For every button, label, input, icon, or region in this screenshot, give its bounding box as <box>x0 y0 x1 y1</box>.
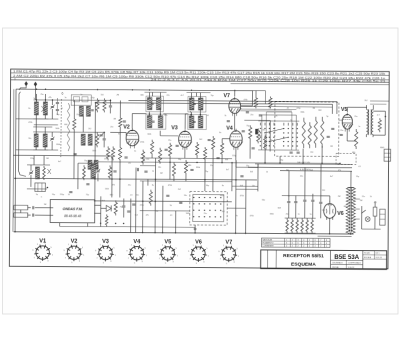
wire V2 grid <box>110 131 126 133</box>
svg-text:V6: V6 <box>195 239 202 245</box>
mains wire 2 <box>248 166 352 169</box>
bus riser 11 <box>257 164 259 191</box>
svg-text:6k8: 6k8 <box>225 159 228 161</box>
svg-text:4: 4 <box>303 240 304 242</box>
svg-text:25n: 25n <box>340 130 343 132</box>
svg-text:100k: 100k <box>147 134 151 136</box>
svg-text:5-10-53: 5-10-53 <box>348 267 354 269</box>
capacitor C18b <box>331 127 334 129</box>
svg-text:150: 150 <box>100 94 103 96</box>
wire stub g <box>236 188 258 190</box>
svg-text:FECHA: FECHA <box>332 266 339 269</box>
svg-text:5p: 5p <box>74 154 76 156</box>
svg-text:2: 2 <box>292 240 293 242</box>
bus riser 8 <box>175 211 177 233</box>
svg-text:680: 680 <box>344 206 347 208</box>
svg-text:150: 150 <box>322 190 325 192</box>
svg-text:6: 6 <box>309 243 310 245</box>
svg-text:330k: 330k <box>56 144 60 146</box>
node dots mid <box>155 179 157 181</box>
power transformer T4 <box>346 187 350 234</box>
svg-text:V4: V4 <box>226 126 233 132</box>
resistor R36b <box>105 214 108 226</box>
wire mid drop2 <box>212 158 214 191</box>
svg-text:2: 2 <box>315 246 316 248</box>
svg-text:1n: 1n <box>64 97 66 99</box>
svg-text:8: 8 <box>326 240 327 242</box>
svg-text:150: 150 <box>146 159 149 161</box>
drawing border frame <box>9 69 389 269</box>
svg-text:22n: 22n <box>300 176 303 178</box>
wire T3 secondary <box>373 110 385 112</box>
terminal strip <box>380 209 386 225</box>
small IF block <box>35 183 46 192</box>
wire ps top <box>282 195 321 197</box>
svg-text:25u: 25u <box>128 185 131 187</box>
svg-text:470k: 470k <box>243 99 247 101</box>
svg-text:2M: 2M <box>160 173 163 175</box>
svg-text:5n: 5n <box>80 94 82 96</box>
electrolytic C21 <box>287 201 290 203</box>
wire fm verticals <box>59 223 61 226</box>
resistor R13 <box>158 148 161 164</box>
resistor R16 <box>203 147 206 161</box>
wire sw2 link <box>227 207 245 209</box>
svg-text:25n: 25n <box>40 94 43 96</box>
wire V2 plate <box>131 114 133 129</box>
resistor R26 <box>308 122 311 148</box>
svg-text:7: 7 <box>320 240 321 242</box>
FM block box <box>50 200 95 223</box>
svg-text:2k2: 2k2 <box>88 128 91 130</box>
capacitor C7 <box>103 138 106 140</box>
svg-text:75p: 75p <box>120 206 123 208</box>
svg-text:1: 1 <box>286 240 287 242</box>
wire T2 drop <box>190 112 192 116</box>
mains wire 1 <box>255 163 352 166</box>
wire heater <box>232 185 258 187</box>
svg-text:VALVULAS: VALVULAS <box>263 239 273 242</box>
svg-text:.01: .01 <box>286 108 289 110</box>
capacitor C19c <box>290 151 293 153</box>
svg-text:3k3: 3k3 <box>310 170 313 172</box>
AM aerial coil L2 <box>34 134 38 147</box>
capacitor C32 <box>179 201 182 203</box>
bank bus bottom <box>285 232 316 234</box>
svg-text:2: 2 <box>297 246 298 248</box>
wire sw2 drop <box>194 225 196 233</box>
svg-text:15p: 15p <box>246 165 249 167</box>
grid loop wire 1 <box>128 100 336 101</box>
svg-text:47k: 47k <box>112 184 115 186</box>
capacitor C10 <box>123 120 126 122</box>
svg-text:5n: 5n <box>290 120 292 122</box>
resistor R11 <box>141 150 144 165</box>
valve socket V4 <box>130 246 143 259</box>
wire if stubs <box>151 156 153 158</box>
svg-text:V2: V2 <box>71 238 78 244</box>
svg-text:5p: 5p <box>170 205 172 207</box>
svg-text:4u7: 4u7 <box>226 169 229 171</box>
valve socket V1 <box>36 246 49 259</box>
valve socket V2 <box>67 246 80 259</box>
antenna terminal A2 <box>34 82 37 87</box>
svg-text:5p: 5p <box>33 98 35 100</box>
capacitor C12b <box>113 170 116 172</box>
svg-text:50p: 50p <box>206 185 209 187</box>
resistor R23 <box>314 117 317 148</box>
svg-text:8u: 8u <box>219 132 221 134</box>
svg-text:8u: 8u <box>222 185 224 187</box>
avc bus wire <box>13 154 112 157</box>
svg-text:22n: 22n <box>362 196 365 198</box>
wire stub a <box>82 116 84 132</box>
svg-text:V5: V5 <box>164 239 171 245</box>
capacitor C20v <box>340 133 343 135</box>
svg-text:DELINEADO: DELINEADO <box>332 261 343 264</box>
svg-text:1n: 1n <box>358 126 360 128</box>
wire ps risers <box>288 171 290 196</box>
bus riser 7 <box>162 186 164 233</box>
heater pair wire <box>318 235 352 237</box>
capacitor C29b <box>132 203 135 205</box>
FM aerial coil L1 <box>34 102 38 115</box>
capacitor C27 <box>32 213 34 216</box>
wire v x136 <box>135 168 137 233</box>
svg-text:330k: 330k <box>270 213 274 215</box>
svg-text:8u: 8u <box>236 215 238 217</box>
resistor R20 <box>249 125 252 140</box>
svg-text:COMPROBADO: COMPROBADO <box>348 262 362 265</box>
tube V5 <box>342 114 352 129</box>
switch loop inner 2 <box>266 112 292 150</box>
svg-text:47k: 47k <box>48 97 51 99</box>
resistor R28 <box>378 118 381 132</box>
svg-text:50p: 50p <box>280 160 283 162</box>
svg-text:CORRIENTE: CORRIENTE <box>262 246 274 248</box>
svg-text:220p: 220p <box>30 158 34 160</box>
resistor R21 <box>257 128 260 143</box>
svg-text:88.48-98.48: 88.48-98.48 <box>64 214 81 218</box>
bus riser 1 <box>94 103 97 201</box>
svg-text:V5: V5 <box>341 107 348 113</box>
node dot a <box>36 88 38 90</box>
svg-text:V2: V2 <box>123 124 130 130</box>
wire V5 cath <box>346 129 348 141</box>
electrolytic C28 <box>122 205 125 207</box>
valve socket V3 <box>99 246 112 259</box>
svg-text:1k: 1k <box>266 171 268 173</box>
wire T3 loop <box>370 100 389 102</box>
svg-text:2M: 2M <box>338 196 341 198</box>
title block frame <box>261 250 387 270</box>
capacitor C16b <box>259 114 262 116</box>
IF transformer T1 <box>147 98 152 110</box>
resistor R25 <box>302 118 305 149</box>
svg-text:.01: .01 <box>358 166 361 168</box>
title sub rules <box>331 259 363 261</box>
svg-text:330k: 330k <box>196 167 200 169</box>
bus wire mid <box>95 200 232 203</box>
switch wiper lines <box>265 128 284 132</box>
pilot lamp <box>365 217 370 222</box>
cap column <box>56 101 59 103</box>
svg-text:10n: 10n <box>252 185 255 187</box>
parts list rule 3 <box>11 80 390 83</box>
resistor R36 <box>114 200 117 215</box>
mains switch S1 <box>362 206 366 213</box>
resistor R9b <box>106 146 109 160</box>
svg-text:220p: 220p <box>90 97 94 99</box>
capacitor C31 <box>166 194 169 196</box>
svg-text:8u: 8u <box>152 185 154 187</box>
gang dashed link 2 <box>189 99 191 128</box>
wire v4 to af <box>236 160 258 167</box>
gang wavy link <box>67 103 70 151</box>
svg-text:V7: V7 <box>223 93 230 99</box>
svg-text:2M: 2M <box>360 200 363 202</box>
resistor R40 <box>269 96 272 108</box>
wire V6 top <box>329 196 331 202</box>
wire sw right <box>331 104 333 114</box>
tube V3 <box>179 131 192 147</box>
resistor R14 <box>168 143 171 158</box>
bus riser 6 <box>142 181 144 233</box>
black cap blob <box>255 129 258 135</box>
wire front-end gnd <box>35 119 37 127</box>
wire V7 leads <box>234 91 236 97</box>
wire mid drop1 <box>204 161 206 191</box>
svg-text:.01: .01 <box>60 108 63 110</box>
svg-text:5n: 5n <box>310 214 312 216</box>
capacitor C14h <box>208 138 211 140</box>
svg-text:5p: 5p <box>36 194 38 196</box>
svg-text:V7: V7 <box>225 239 232 245</box>
wire v x131 <box>130 199 132 233</box>
wire trafo bottom <box>350 233 352 234</box>
svg-text:2: 2 <box>309 246 310 248</box>
svg-text:6: 6 <box>303 243 304 245</box>
svg-text:1M: 1M <box>312 108 315 110</box>
wire det <box>244 119 270 121</box>
svg-text:1n: 1n <box>270 139 272 141</box>
svg-text:1M: 1M <box>113 118 116 120</box>
resistor R11b <box>108 165 111 179</box>
wire FM out 2 <box>94 212 100 214</box>
svg-text:2k2: 2k2 <box>178 189 181 191</box>
resistor R4 <box>103 98 106 112</box>
wire V6 bottom <box>329 218 331 234</box>
svg-text:B5E 53A: B5E 53A <box>334 254 359 261</box>
wire link fe <box>34 124 58 126</box>
RF coil L3b <box>88 160 92 169</box>
svg-text:220p: 220p <box>140 205 144 207</box>
svg-text:2: 2 <box>286 246 287 248</box>
wire V5 plate <box>346 107 348 112</box>
capacitor C18v <box>327 135 330 137</box>
svg-text:1M: 1M <box>46 158 49 160</box>
avc bus wire 2 <box>95 162 340 164</box>
RF coil L3 <box>79 106 83 116</box>
electrolytic C22 <box>294 201 297 203</box>
svg-text:25u: 25u <box>76 114 79 116</box>
capacitor C11v <box>124 156 127 158</box>
svg-text:75p: 75p <box>286 170 289 172</box>
capacitor C23 <box>303 199 306 201</box>
valve voltage table <box>261 238 330 247</box>
front-end shield box <box>71 95 91 106</box>
bus riser 3 <box>111 156 113 197</box>
svg-text:.01: .01 <box>206 115 209 117</box>
svg-text:220p: 220p <box>60 194 64 196</box>
wire V3 plate <box>184 114 186 129</box>
svg-text:47k: 47k <box>146 215 149 217</box>
resistor R15 <box>195 142 198 157</box>
capacitor C12 <box>136 168 138 171</box>
svg-text:50p: 50p <box>56 114 59 116</box>
capacitor C16v <box>246 111 249 113</box>
FM dipole antenna <box>14 205 28 210</box>
svg-text:100k: 100k <box>338 120 342 122</box>
wire trafo taps <box>354 198 359 200</box>
svg-text:680: 680 <box>110 194 113 196</box>
svg-text:V3: V3 <box>171 125 178 131</box>
resistor bank R30-R35 <box>286 218 289 233</box>
svg-text:6k8: 6k8 <box>64 124 67 126</box>
svg-text:25n: 25n <box>110 126 113 128</box>
switch loop top <box>240 110 291 112</box>
bottom bus wire <box>14 232 354 234</box>
mains wire 3 <box>280 170 352 172</box>
trimmer C1 <box>51 105 54 107</box>
svg-text:RECEPTOR 58/51: RECEPTOR 58/51 <box>283 253 324 259</box>
svg-text:680: 680 <box>140 95 143 97</box>
svg-text:100k: 100k <box>105 188 109 190</box>
left margin bus wire <box>14 89 17 232</box>
trimmer cluster <box>35 167 39 179</box>
svg-text:V1: V1 <box>39 238 46 244</box>
svg-text:3k3: 3k3 <box>258 135 261 137</box>
ground bus wire 2 <box>140 180 232 183</box>
output transformer T3 <box>367 110 369 113</box>
resistor R38 <box>184 160 187 175</box>
resistor R37 <box>149 190 152 206</box>
svg-text:10n: 10n <box>184 195 187 197</box>
band switch box III <box>336 153 356 164</box>
wire stub j <box>264 91 266 104</box>
avc bus wire b <box>140 157 232 160</box>
svg-text:220p: 220p <box>296 108 300 110</box>
wire stub i <box>173 178 175 181</box>
tube V2 <box>126 130 139 146</box>
wire stub f <box>48 118 58 120</box>
resistor R19 <box>254 96 257 108</box>
wire trafo top <box>347 186 354 188</box>
svg-text:3k3: 3k3 <box>250 171 253 173</box>
capacitor C29 <box>127 210 130 212</box>
svg-text:1M: 1M <box>44 204 47 206</box>
svg-text:5n: 5n <box>134 151 136 153</box>
parts list rule 2 <box>11 77 390 80</box>
wire front-end mid <box>33 131 104 133</box>
top bus wire <box>16 89 252 91</box>
svg-text:470k: 470k <box>168 185 172 187</box>
svg-text:22n: 22n <box>166 95 169 97</box>
resistor R22 <box>264 134 267 150</box>
svg-text:.01: .01 <box>130 195 133 197</box>
capacitor C5 <box>109 105 112 107</box>
ground bus wire <box>14 178 257 180</box>
wire stub e <box>16 118 33 120</box>
svg-text:15p: 15p <box>210 95 213 97</box>
svg-text:5n: 5n <box>288 196 290 198</box>
svg-text:150: 150 <box>322 210 325 212</box>
svg-text:25u: 25u <box>168 140 171 142</box>
switch wafer lines <box>258 120 299 122</box>
svg-text:2k2: 2k2 <box>364 100 367 102</box>
svg-text:4u7: 4u7 <box>330 176 333 178</box>
svg-text:6: 6 <box>298 243 299 245</box>
svg-text:25u: 25u <box>104 158 107 160</box>
svg-text:1k: 1k <box>224 115 226 117</box>
grid loop wire 3 <box>240 105 332 108</box>
svg-text:V6: V6 <box>337 211 344 217</box>
capacitor C26 <box>32 206 34 209</box>
svg-text:47k: 47k <box>274 115 277 117</box>
capacitor C33 <box>240 175 243 177</box>
svg-text:2k2: 2k2 <box>222 211 225 213</box>
svg-text:470k: 470k <box>28 122 32 124</box>
resistor R18 <box>220 141 223 156</box>
svg-text:2M: 2M <box>116 94 119 96</box>
svg-text:6: 6 <box>315 243 316 245</box>
resistor R39 <box>172 162 175 178</box>
parts list rule 1 <box>11 73 390 76</box>
diode D1 <box>106 205 111 211</box>
svg-text:4u7: 4u7 <box>180 95 183 97</box>
svg-text:47k: 47k <box>164 115 167 117</box>
rect tube V6 <box>324 203 336 218</box>
bus riser 5 <box>231 163 233 191</box>
svg-text:ESQUEMA: ESQUEMA <box>291 261 316 267</box>
svg-text:2k2: 2k2 <box>199 139 202 141</box>
tube V7 <box>229 99 241 114</box>
resistor R10b <box>118 145 121 161</box>
switch II inner loop <box>193 194 224 221</box>
svg-text:3k3: 3k3 <box>102 200 105 202</box>
resistor R10 <box>119 116 122 128</box>
wire V3 cath <box>184 148 186 159</box>
osc gang dashed link <box>60 99 62 157</box>
mains entry box <box>384 149 391 161</box>
IF transformer T1b <box>147 116 152 128</box>
wire stub h <box>140 165 155 167</box>
svg-text:6: 6 <box>292 243 293 245</box>
svg-text:10n: 10n <box>28 138 31 140</box>
wire stub d <box>151 92 153 96</box>
node dot b <box>95 102 97 104</box>
resistor R2 <box>96 98 99 112</box>
svg-text:4u7: 4u7 <box>374 202 377 204</box>
antenna lead wire <box>18 92 26 177</box>
bus riser 2 <box>154 158 156 233</box>
wire sw drops <box>279 156 281 163</box>
svg-text:RED: RED <box>380 147 385 149</box>
svg-text:6k8: 6k8 <box>318 110 321 112</box>
svg-text:25n: 25n <box>250 114 253 116</box>
svg-text:470k: 470k <box>140 142 144 144</box>
svg-text:100k: 100k <box>186 213 190 215</box>
